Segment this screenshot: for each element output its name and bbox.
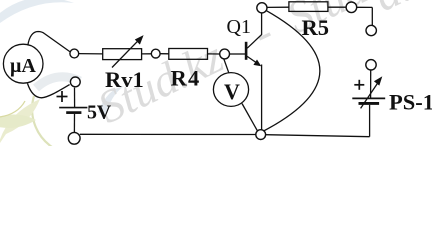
svg-text:V: V <box>224 79 240 104</box>
svg-text:PS-1: PS-1 <box>389 90 432 115</box>
svg-text:Q1: Q1 <box>227 16 251 38</box>
svg-text:5V: 5V <box>87 101 112 123</box>
svg-text:R4: R4 <box>171 66 201 91</box>
svg-text:Rv1: Rv1 <box>105 67 144 92</box>
svg-text:R5: R5 <box>302 15 330 40</box>
svg-text:μA: μA <box>10 55 36 77</box>
